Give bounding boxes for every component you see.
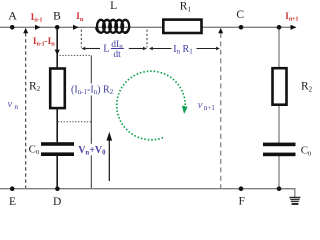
bracket dashed vertical between L and R1 (146, 30, 148, 48)
wire ground stub (279, 189, 295, 197)
green KVL loop circle arrow (117, 71, 186, 140)
bracket InR1 right line (197, 48, 218, 50)
voltage arrow Vn+V0 up (108, 137, 110, 182)
bracket dashed vertical at inductor start (80, 30, 82, 48)
node C (239, 25, 244, 30)
svg-text:D: D (53, 196, 61, 207)
label underlay (70, 84, 114, 96)
KVL loop reference solid line (90, 55, 92, 188)
wire R2 to C0 left (56, 108, 58, 142)
wire top rail A-B-C (0, 26, 291, 28)
arrow I(n+1) at right end of top rail (291, 25, 297, 30)
bracket L dIn/dt left line (84, 48, 100, 50)
node E (10, 186, 15, 191)
bracket InR1 left line (152, 48, 172, 50)
wire left branch B down (56, 27, 58, 68)
inductor L coil (96, 20, 129, 33)
svg-text:B: B (53, 11, 61, 23)
wire bottom rail E-D-F (0, 188, 295, 190)
svg-text:L: L (103, 44, 109, 55)
svg-text:Vn+V0: Vn+V0 (78, 145, 106, 157)
svg-text:L: L (110, 0, 117, 12)
capacitor C0 right plates (263, 143, 296, 147)
arrow I(n-1) on top rail (35, 25, 41, 30)
bracket L dIn/dt right line (129, 48, 144, 50)
node D (55, 186, 60, 191)
node F (239, 186, 244, 191)
ground symbol (289, 197, 300, 202)
vn+1 measurement dashed line (220, 33, 222, 188)
svg-text:F: F (238, 195, 244, 207)
dotted connector mid (58, 121, 92, 123)
arrow (In-1 - In) downward on B branch (55, 50, 60, 55)
wire right branch C to F (278, 27, 280, 143)
svg-text:(In-1-In) R2: (In-1-In) R2 (71, 85, 114, 97)
node A (10, 25, 15, 30)
resistor R1 body (163, 20, 201, 33)
capacitor C0 left plates (41, 142, 74, 146)
svg-text:C: C (236, 9, 244, 21)
resistor R2 left body (50, 69, 65, 109)
svg-text:A: A (8, 8, 17, 22)
svg-text:dt: dt (113, 50, 121, 60)
svg-text:E: E (9, 196, 16, 207)
vn measurement dashed line (25, 33, 27, 188)
junction bottom right (277, 186, 282, 191)
node B (55, 25, 60, 30)
junction top right (277, 25, 282, 30)
resistor R2 right body (273, 68, 287, 105)
dotted connector top (60, 54, 92, 56)
label L dIn/dt blue (103, 40, 123, 60)
arrow In on top rail (73, 25, 79, 30)
wire C0 left to D (56, 156, 58, 189)
label underlay (77, 144, 105, 156)
